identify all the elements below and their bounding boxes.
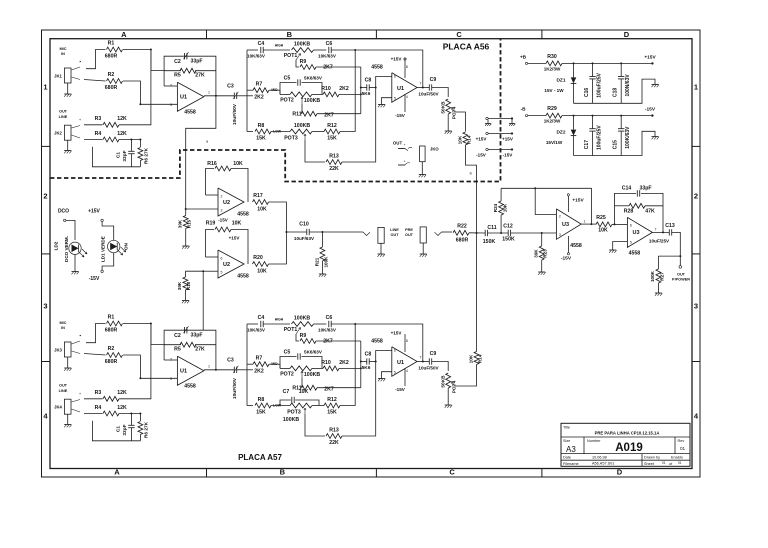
capacitor C13 10uF/25V xyxy=(668,229,670,235)
svg-text:+: + xyxy=(403,143,405,147)
resistor R6 27K xyxy=(139,140,141,148)
wire jack JK1 tip to R1 xyxy=(72,67,81,70)
svg-text:1: 1 xyxy=(43,83,47,92)
svg-text:R8: R8 xyxy=(258,397,265,403)
svg-text:R8: R8 xyxy=(258,123,265,129)
svg-text:2K2: 2K2 xyxy=(339,86,349,92)
svg-text:+15V: +15V xyxy=(644,54,656,60)
svg-text:2K2: 2K2 xyxy=(339,360,349,366)
wire R10 to input bus xyxy=(339,93,361,95)
svg-text:OUT: OUT xyxy=(59,384,68,388)
resistor R17 10K xyxy=(253,200,269,205)
svg-text:ON: ON xyxy=(124,242,129,250)
svg-text:7: 7 xyxy=(420,82,422,86)
wire bus top to C4 xyxy=(247,323,258,325)
svg-text:C: C xyxy=(449,468,455,477)
resistor R13 22K xyxy=(326,434,342,439)
wire C6 to output feedback rail xyxy=(331,50,423,88)
svg-text:C4: C4 xyxy=(258,315,265,321)
svg-text:PRE PARA LINHA CP10.12.15.1A: PRE PARA LINHA CP10.12.15.1A xyxy=(595,430,660,435)
dashed boundary PLACA A56 xyxy=(50,39,501,182)
wire bus top to C4 xyxy=(247,49,258,51)
resistor R3 xyxy=(103,396,119,401)
column tick marks bottom xyxy=(206,469,208,478)
svg-text:4558: 4558 xyxy=(184,110,196,116)
svg-text:U1: U1 xyxy=(180,369,187,375)
svg-text:4558: 4558 xyxy=(237,274,249,280)
power flag -15V at U1 xyxy=(404,94,406,112)
svg-text:R5: R5 xyxy=(174,73,181,79)
power flag -15V at U1 xyxy=(404,368,406,386)
svg-text:LD2: LD2 xyxy=(54,241,59,250)
wire R10 to input bus xyxy=(339,367,361,369)
resistor R10 2K2 xyxy=(323,92,339,97)
connector break symbol xyxy=(363,232,370,236)
svg-text:PRE: PRE xyxy=(405,228,413,232)
svg-text:4558: 4558 xyxy=(570,243,582,249)
wire ground return rail xyxy=(92,421,140,441)
wire C10 onward xyxy=(309,231,363,233)
svg-text:15K: 15K xyxy=(256,136,266,142)
wire U3a output to R25 xyxy=(581,223,596,225)
svg-text:C6: C6 xyxy=(326,315,333,321)
power flag -15V interconnect xyxy=(486,148,488,150)
svg-text:-15V: -15V xyxy=(561,256,572,262)
svg-text:3: 3 xyxy=(170,377,172,381)
svg-text:150K: 150K xyxy=(483,239,496,245)
wire rail to +15V xyxy=(562,62,651,64)
svg-text:+B: +B xyxy=(520,54,527,60)
svg-text:R19: R19 xyxy=(206,221,216,227)
wire C9 to POT4 xyxy=(432,88,449,98)
svg-text:10K/63V: 10K/63V xyxy=(318,54,337,59)
zener DZ1 15V - 1W xyxy=(573,62,575,64)
svg-text:4: 4 xyxy=(406,95,408,99)
svg-text:C6: C6 xyxy=(326,41,333,47)
svg-text:4558: 4558 xyxy=(629,251,641,257)
wire POT3 to R12 xyxy=(312,405,324,407)
title block xyxy=(561,423,690,466)
wire input bus to C8 xyxy=(360,67,362,114)
svg-text:R20: R20 xyxy=(253,255,263,261)
svg-text:R2: R2 xyxy=(108,72,115,78)
wire R2 to U1 non-inverting input xyxy=(123,81,177,104)
capacitor C8 5K6 xyxy=(361,87,367,89)
svg-text:100KB: 100KB xyxy=(283,417,299,423)
inner border frame xyxy=(50,39,692,469)
svg-text:R3: R3 xyxy=(95,390,102,396)
svg-text:5K6: 5K6 xyxy=(362,91,371,97)
resistor R1 xyxy=(107,47,123,52)
svg-text:100N/63V: 100N/63V xyxy=(625,74,631,97)
svg-text:4558: 4558 xyxy=(371,65,383,71)
wire U1 output to C3 xyxy=(204,95,234,97)
wire jack JK1 ring to R2 xyxy=(72,77,81,80)
resistor R21 100K to ground xyxy=(321,231,323,233)
svg-text:C15: C15 xyxy=(613,140,619,149)
svg-text:+: + xyxy=(403,160,405,164)
svg-text:C18: C18 xyxy=(613,88,619,97)
svg-text:Drawn by: Drawn by xyxy=(644,455,660,459)
wire R3 to bus xyxy=(119,324,151,399)
row tick marks right xyxy=(692,145,700,147)
wire bottom channel riser to U2b xyxy=(202,271,204,330)
resistor R9 2K7 xyxy=(300,65,316,70)
svg-text:5: 5 xyxy=(630,241,632,245)
svg-text:JK4: JK4 xyxy=(54,405,62,410)
svg-text:OUT: OUT xyxy=(390,233,399,237)
svg-text:10K: 10K xyxy=(257,269,267,275)
resistor R30 1K2/3W xyxy=(546,61,562,66)
op-amp U1 tone stage 4558 xyxy=(392,73,417,102)
wire LED LD1 to -15V xyxy=(102,253,114,271)
resistor R4 xyxy=(103,137,119,142)
ground below PRE OUT xyxy=(422,243,424,254)
feedback network C2 / R5 xyxy=(164,56,216,96)
svg-text:MIC: MIC xyxy=(60,321,67,325)
svg-text:DCO: DCO xyxy=(58,209,69,215)
capacitor C1 33pF xyxy=(130,414,132,426)
svg-text:-15V: -15V xyxy=(476,153,487,158)
wire R8 to POT3 xyxy=(271,131,290,133)
svg-text:C2: C2 xyxy=(174,59,181,65)
svg-text:Sheet: Sheet xyxy=(644,462,655,466)
svg-text:33pF: 33pF xyxy=(122,150,128,161)
svg-text:680R: 680R xyxy=(456,238,469,244)
wire C6 to output feedback rail xyxy=(331,324,423,362)
svg-text:PLACA A57: PLACA A57 xyxy=(238,453,282,462)
capacitor C3 10uF/50V xyxy=(233,367,235,373)
svg-text:33pF: 33pF xyxy=(122,424,128,435)
wire bus mid to R7 xyxy=(247,89,253,91)
svg-text:2: 2 xyxy=(559,215,561,219)
svg-text:POT2: POT2 xyxy=(280,372,294,378)
wire POT2 to R10 xyxy=(312,367,323,369)
jack JKO xyxy=(420,146,426,162)
svg-text:C14: C14 xyxy=(622,186,632,192)
ground below JKO xyxy=(419,174,426,176)
svg-text:2K7: 2K7 xyxy=(323,339,333,345)
svg-text:6: 6 xyxy=(630,224,632,228)
svg-text:P/POWER: P/POWER xyxy=(672,278,690,282)
resistor R3 xyxy=(103,122,119,127)
wire U3b output to C13 xyxy=(652,231,669,233)
resistor R2 xyxy=(107,353,123,358)
svg-text:39K: 39K xyxy=(178,219,183,228)
ground below LINE OUT xyxy=(380,243,382,254)
svg-text:-15V: -15V xyxy=(89,276,100,282)
potentiometer POT3 100KB xyxy=(290,403,312,408)
op-amp U1 tone stage 4558 xyxy=(392,347,417,376)
wire bus low to R8 xyxy=(247,131,253,133)
svg-text:10K: 10K xyxy=(257,207,267,213)
wire POT2 wiper to R11 xyxy=(301,378,303,388)
wire POT2 to R10 xyxy=(312,93,323,95)
potentiometer POT2 100KB xyxy=(279,90,281,94)
wire R4 to C1 and R6 xyxy=(119,139,140,141)
svg-text:-15V: -15V xyxy=(395,387,406,392)
svg-text:B: B xyxy=(287,30,293,39)
resistor R5 27K xyxy=(180,342,196,347)
svg-text:8: 8 xyxy=(406,65,408,69)
svg-text:C: C xyxy=(456,30,462,39)
svg-text:C1: C1 xyxy=(116,152,122,158)
svg-text:R10: R10 xyxy=(321,360,331,366)
wire R2 to U1 non-inverting input xyxy=(123,355,177,378)
wire POT1 wiper to R9 xyxy=(296,334,299,341)
svg-text:D: D xyxy=(617,468,623,477)
resistor R2 xyxy=(107,79,123,84)
svg-text:-B: -B xyxy=(520,107,526,113)
svg-text:100uF/25V: 100uF/25V xyxy=(597,125,603,150)
svg-text:+15V: +15V xyxy=(476,137,488,142)
svg-text:2: 2 xyxy=(694,192,698,201)
svg-text:6: 6 xyxy=(394,349,396,353)
svg-text:C1: C1 xyxy=(116,426,122,432)
power flag +15V at U1 xyxy=(404,334,406,352)
ground symbol left of boundary xyxy=(487,120,489,124)
jack JK3 (mic in) xyxy=(64,342,71,357)
wire R7 to POT2 box xyxy=(269,363,280,365)
svg-text:-15V: -15V xyxy=(395,113,406,118)
svg-text:1: 1 xyxy=(208,91,210,95)
ground below jack JK2 xyxy=(64,150,71,152)
svg-text:100K/63V: 100K/63V xyxy=(625,126,631,149)
potentiometer POT4 50KB xyxy=(446,373,451,388)
op-amp U2 second 4558 xyxy=(218,250,244,278)
feedback network C2 / R5 xyxy=(164,330,216,370)
svg-text:IN: IN xyxy=(61,326,65,330)
wire junction to U2b non-inverting input xyxy=(203,270,218,272)
svg-text:5: 5 xyxy=(394,371,396,375)
svg-text:R3: R3 xyxy=(95,116,102,122)
svg-text:R9: R9 xyxy=(300,59,307,65)
wire POT1 to C6 xyxy=(314,49,327,51)
svg-text:C5: C5 xyxy=(284,350,291,356)
svg-text:R11: R11 xyxy=(292,112,301,118)
wire input bus to C8 xyxy=(360,341,362,388)
svg-text:JK2: JK2 xyxy=(54,131,62,136)
svg-text:100KB: 100KB xyxy=(294,42,310,48)
wire jack JK3 tip to R1 xyxy=(72,341,81,344)
svg-text:PLACA A56: PLACA A56 xyxy=(443,42,490,52)
resistor R20 10K xyxy=(253,262,269,267)
wire jack JK4 to ground xyxy=(67,414,69,424)
svg-text:50KB: 50KB xyxy=(441,375,447,388)
svg-text:R5: R5 xyxy=(174,347,181,353)
svg-text:C12: C12 xyxy=(503,224,513,230)
wire top channel take-off to U2a xyxy=(186,96,216,209)
svg-text:10.06.98: 10.06.98 xyxy=(592,455,607,459)
svg-text:100KB: 100KB xyxy=(294,123,310,129)
resistor R7 2K2 xyxy=(253,362,269,367)
svg-text:JK1: JK1 xyxy=(54,74,62,79)
svg-text:6: 6 xyxy=(221,257,223,261)
svg-text:U1: U1 xyxy=(180,95,187,101)
resistor R29 1K2/3W xyxy=(546,113,562,118)
power flag +15V interconnect xyxy=(486,132,488,134)
resistor R22 680R xyxy=(453,230,469,235)
wire R12 to feedback riser xyxy=(340,50,355,132)
svg-text:Filename: Filename xyxy=(563,462,579,466)
ground below POT4 xyxy=(445,130,452,132)
wire R13 to inverting input riser xyxy=(342,362,376,437)
svg-text:33pF: 33pF xyxy=(639,186,651,192)
svg-text:10uF/50V: 10uF/50V xyxy=(418,92,439,97)
wire ground return rail xyxy=(92,147,140,167)
resistor R14 10K xyxy=(463,132,468,145)
wire U1 output to C9 xyxy=(417,361,429,363)
wire to R22 xyxy=(442,231,453,233)
svg-text:A: A xyxy=(114,468,120,477)
svg-text:R12: R12 xyxy=(327,397,337,403)
svg-text:2K2: 2K2 xyxy=(254,369,264,375)
svg-text:C9: C9 xyxy=(430,77,437,83)
wire R1 to feedback node xyxy=(123,324,165,345)
svg-text:MIC: MIC xyxy=(60,47,67,51)
wire R17 to sum node xyxy=(269,202,287,232)
wire R14 down to node b xyxy=(465,145,476,233)
svg-text:R27: R27 xyxy=(660,272,665,281)
svg-text:10uF/50V: 10uF/50V xyxy=(418,366,439,371)
wire C12 to U3a non-inverting input xyxy=(511,232,557,234)
capacitor C4 10K/63V xyxy=(260,321,262,327)
svg-text:U3: U3 xyxy=(632,230,639,236)
svg-text:10K: 10K xyxy=(598,228,608,234)
svg-text:150K: 150K xyxy=(502,237,515,243)
wire POT1 wiper to R9 xyxy=(296,60,299,67)
svg-text:R6 27K: R6 27K xyxy=(144,147,150,164)
wire R11 to input bus xyxy=(317,387,361,389)
svg-text:R4: R4 xyxy=(95,405,102,411)
svg-text:C13: C13 xyxy=(665,223,675,229)
svg-text:C3: C3 xyxy=(227,358,234,364)
svg-text:C4: C4 xyxy=(258,41,265,47)
wire C9 to POT4 xyxy=(432,362,449,372)
wire bus low to R8 xyxy=(247,405,253,407)
potentiometer POT3 100KB xyxy=(290,129,312,134)
svg-text:39K: 39K xyxy=(177,281,182,290)
wire R25 to U3b inverting input xyxy=(612,223,627,225)
svg-text:22K: 22K xyxy=(329,440,339,446)
svg-text:Rev: Rev xyxy=(678,439,685,443)
svg-text:C5: C5 xyxy=(284,76,291,82)
svg-text:B: B xyxy=(280,468,286,477)
capacitor C9 10uF/50V xyxy=(428,358,430,364)
svg-text:Date: Date xyxy=(563,455,571,459)
svg-text:22K: 22K xyxy=(329,166,339,172)
ground at U1 non-inverting input xyxy=(382,372,392,379)
capacitor C18 100N/63V xyxy=(620,62,622,64)
wire feedback to inverting input xyxy=(164,359,177,361)
wire bus to U2a non-inverting input xyxy=(186,208,218,210)
svg-text:4558: 4558 xyxy=(371,339,383,345)
svg-text:D: D xyxy=(624,30,630,39)
wire C13 to output xyxy=(658,232,680,256)
svg-text:DCO VERM.: DCO VERM. xyxy=(64,236,69,262)
ground symbol supply block xyxy=(652,136,659,138)
svg-text:POT3: POT3 xyxy=(284,136,298,142)
capacitor C11 150K xyxy=(484,230,486,236)
wire jack JK4 ring to R4 xyxy=(72,409,81,412)
svg-text:10K: 10K xyxy=(233,161,243,167)
capacitor C17 100uF/25V xyxy=(592,115,594,117)
svg-text:R17: R17 xyxy=(253,193,263,199)
svg-text:100KB: 100KB xyxy=(304,98,320,104)
wire R13 to inverting input riser xyxy=(342,88,376,163)
svg-text:R6 27K: R6 27K xyxy=(144,421,150,438)
svg-text:01: 01 xyxy=(680,446,686,451)
ground symbol right of boundary xyxy=(511,120,513,124)
svg-text:10K/63V: 10K/63V xyxy=(247,328,266,333)
power +15V at U3a xyxy=(567,196,569,212)
wire to U2b inverting input xyxy=(206,256,219,258)
capacitor C15 100K/63V xyxy=(620,115,622,117)
svg-text:10K/63V: 10K/63V xyxy=(247,54,266,59)
svg-text:R1: R1 xyxy=(108,41,115,47)
svg-text:POT3: POT3 xyxy=(287,410,301,416)
svg-text:C7: C7 xyxy=(283,389,290,395)
svg-text:100KB: 100KB xyxy=(294,316,310,322)
svg-text:LINE: LINE xyxy=(390,228,399,232)
capacitor C2 33pF xyxy=(184,327,186,333)
svg-text:10K: 10K xyxy=(232,221,242,227)
svg-text:6: 6 xyxy=(394,75,396,79)
svg-text:C10: C10 xyxy=(299,222,309,228)
zener DZ2 15V/1W xyxy=(573,115,575,117)
svg-text:5K6/63V: 5K6/63V xyxy=(304,350,323,355)
wire tone input bus xyxy=(246,324,248,406)
resistor R23 39K to ground xyxy=(541,232,543,234)
svg-text:5: 5 xyxy=(394,97,396,101)
svg-text:15K: 15K xyxy=(256,410,266,416)
resistor R25 10K xyxy=(596,222,612,227)
wire R20 to sum node xyxy=(269,232,287,264)
svg-text:27K: 27K xyxy=(195,73,205,79)
svg-text:R18: R18 xyxy=(186,281,191,290)
svg-text:U3: U3 xyxy=(562,222,569,228)
svg-text:2: 2 xyxy=(170,358,172,362)
svg-text:C8: C8 xyxy=(365,78,372,84)
ground below R21 xyxy=(319,273,326,275)
svg-text:2: 2 xyxy=(43,192,47,201)
capacitor C3 10uF/50V xyxy=(233,93,235,99)
capacitor C16 100uF/25V xyxy=(592,62,594,64)
ground at U3b non-inverting input xyxy=(613,242,628,251)
svg-text:R2: R2 xyxy=(108,346,115,352)
ground below R15 xyxy=(185,229,187,247)
wire C11 to C12 xyxy=(488,232,509,234)
svg-text:C9: C9 xyxy=(430,351,437,357)
svg-text:OUT: OUT xyxy=(393,141,403,146)
wire node b riser down to bottom channel xyxy=(476,233,478,352)
svg-text:A56.A57.S01: A56.A57.S01 xyxy=(592,461,614,465)
wire R9 to input bus xyxy=(316,66,361,68)
svg-text:12K: 12K xyxy=(117,390,127,396)
wire C8 to op-amp inverting input xyxy=(369,87,376,89)
resistor R6 27K xyxy=(139,414,141,422)
capacitor C8 5K6 xyxy=(361,361,367,363)
svg-text:10uF/50V: 10uF/50V xyxy=(232,377,238,399)
svg-text:C3: C3 xyxy=(227,84,234,90)
outer border frame xyxy=(42,30,701,477)
svg-text:LINE: LINE xyxy=(59,389,68,393)
svg-text:01: 01 xyxy=(662,461,666,465)
svg-text:R7: R7 xyxy=(256,82,263,88)
svg-text:Title: Title xyxy=(563,426,570,430)
svg-text:33pF: 33pF xyxy=(190,333,202,339)
wire POT4 to ground xyxy=(447,388,449,405)
